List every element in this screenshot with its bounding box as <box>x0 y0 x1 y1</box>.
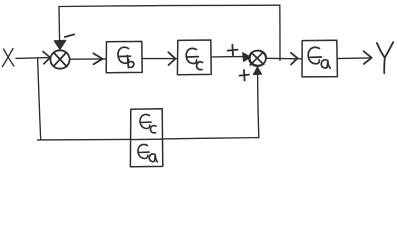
summing junction S2 <box>249 49 268 67</box>
top feedback wire horizontal <box>59 5 280 6</box>
arrowhead into Ga <box>291 53 298 65</box>
wire bottom-left to Gc/Ga block (with fraction-bar continuation) <box>37 139 41 141</box>
label Gb <box>118 47 134 67</box>
wire branch down to bottom path <box>38 58 41 139</box>
summing junction S1 <box>50 50 69 68</box>
input label X <box>3 49 15 67</box>
feedback arrow into S1 (vertical drop) <box>58 7 61 42</box>
label Ga <box>308 47 330 68</box>
block Gc/Ga <box>130 109 162 167</box>
block Gb <box>106 41 142 72</box>
minus sign at S1 <box>65 34 74 37</box>
arrowhead into Gb <box>93 53 102 64</box>
arrowhead into S1 <box>43 52 50 64</box>
wire Gc/Ga block to S2 riser <box>163 138 259 139</box>
solid arrowhead up into S2 <box>253 67 261 75</box>
fraction bar <box>132 138 162 140</box>
wire S2 to block Ga <box>266 57 302 60</box>
riser vertical up into S2 <box>258 73 259 138</box>
block Gc <box>177 40 211 75</box>
plus sign left of S2 <box>228 45 238 56</box>
block Ga <box>302 40 337 77</box>
arrowhead into Gc <box>168 52 175 65</box>
wire Gc to summing junction S2 <box>211 56 244 58</box>
output label Y <box>377 42 393 73</box>
plus sign below S2 <box>240 70 249 81</box>
wire X to summing junction S1 <box>16 57 50 60</box>
label Gc (numerator) <box>140 114 156 132</box>
label Gc <box>186 48 202 69</box>
solid arrowhead into S2 <box>243 53 251 62</box>
wire Ga to output <box>337 57 369 60</box>
label Ga (denominator) <box>138 144 157 162</box>
wire S1 to block Gb <box>70 58 106 60</box>
top feedback wire right vertical <box>279 5 281 60</box>
wire Gb to Gc <box>142 58 177 60</box>
arrowhead to Y <box>364 51 372 64</box>
